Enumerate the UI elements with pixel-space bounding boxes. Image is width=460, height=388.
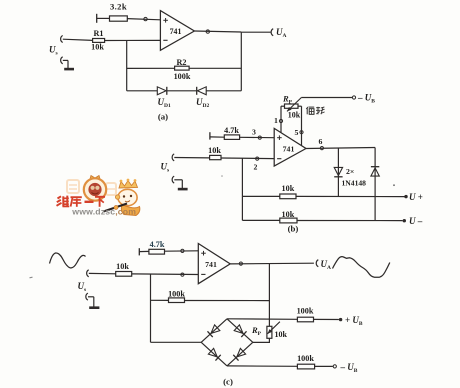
wire to ground (b)	[174, 179, 182, 181]
svg-text:1N4148: 1N4148	[342, 179, 367, 188]
resistor 100k +UB (c)	[297, 317, 313, 322]
wire to ground (a)	[63, 59, 68, 61]
watermark mascot face	[123, 195, 125, 197]
resistor R1	[93, 39, 105, 43]
watermark mascot head	[118, 189, 137, 205]
resistor R2 100k	[175, 66, 190, 70]
resistor 10k U+ (b)	[280, 194, 296, 199]
ground bar (c)	[89, 306, 99, 309]
svg-text:10k: 10k	[91, 43, 104, 52]
bridge edge top-right	[227, 319, 253, 343]
watermark text 维库一下	[58, 196, 62, 198]
wire R2 row	[127, 67, 175, 69]
resistor 4.7k (c)	[149, 249, 165, 254]
watermark mascot pointer stick	[104, 204, 128, 212]
pin 3 node circle	[258, 136, 261, 139]
pin 1 node circle	[279, 119, 282, 122]
svg-text:(b): (b)	[288, 224, 299, 234]
output clipped sine waveform (c)	[333, 257, 390, 278]
node on output (b)	[320, 147, 323, 150]
output wire (a)	[194, 31, 241, 32]
wire to ground (c)	[88, 296, 94, 298]
pot to bridge right corner wire (c)	[253, 338, 270, 342]
scan speck 3	[221, 175, 223, 177]
bridge edge top-left	[201, 319, 227, 343]
resistor 4.7k (b)	[224, 135, 239, 140]
node column left (c)	[150, 274, 152, 342]
output wire (c)	[230, 262, 314, 265]
pin 5 node circle	[300, 131, 303, 134]
wire U- row (b)	[242, 219, 279, 221]
pot wiper arrow (b)	[287, 98, 301, 112]
potentiometer RP 10k (c)	[267, 326, 272, 338]
feedback column right (a)	[240, 32, 242, 91]
op-amp U1 741 (a)	[160, 11, 194, 51]
pin 2 node circle	[256, 157, 259, 160]
potentiometer RP 10k (b)	[285, 104, 299, 108]
wire 4.7k to + input (c)	[139, 250, 149, 252]
input sine waveform (c)	[50, 253, 86, 268]
input terminal Us (b)	[172, 154, 174, 161]
wire 4.7k to pin 3	[210, 136, 224, 138]
resistor 3.2k	[110, 16, 128, 21]
wire U+ row (b)	[242, 195, 279, 197]
diode 1N4148 down (b)	[334, 167, 342, 175]
watermark mascot crown spikes	[119, 181, 138, 189]
resistor 10k input (c)	[116, 272, 132, 277]
scan speck 1	[393, 184, 395, 186]
diode UD2	[197, 87, 206, 95]
svg-text:R1: R1	[93, 29, 103, 38]
ground bar (a)	[64, 68, 74, 71]
bridge edge bottom-right	[227, 342, 253, 366]
svg-text:5: 5	[295, 128, 299, 137]
input terminal Us (a)	[61, 36, 63, 43]
ground bar (b)	[178, 188, 188, 191]
watermark ghost glyph left	[67, 180, 79, 193]
left diode branch wire (b)	[337, 148, 339, 197]
resistor 10k input (b)	[210, 155, 221, 159]
svg-text:10k: 10k	[208, 146, 221, 155]
wire -UB row (c)	[227, 365, 297, 367]
diode 1N4148 up (b)	[371, 168, 379, 176]
bridge edge bottom-left	[201, 342, 227, 366]
node circle + input (c)	[181, 249, 184, 252]
svg-text:2×: 2×	[346, 167, 354, 176]
node circle - input (c)	[181, 273, 184, 276]
op-amp U3 741 (c)	[198, 244, 230, 284]
node on output (c)	[239, 262, 242, 265]
bridge diode D2 top-right	[234, 325, 243, 334]
terminal circle -UB (b)	[352, 96, 355, 99]
terminal circle -UB (c)	[333, 365, 336, 368]
pot RP wiper wire to -UB	[301, 97, 352, 99]
bridge diode D4 bottom-right	[237, 348, 246, 357]
svg-text:3.2k: 3.2k	[110, 2, 127, 12]
resistor 100k feedback (c)	[169, 298, 185, 303]
svg-text:3: 3	[252, 128, 256, 137]
svg-text:R2: R2	[176, 58, 186, 67]
diode UD1	[157, 87, 166, 95]
node column below pin 2 (b)	[241, 158, 243, 220]
ground terminal arc (b)	[172, 176, 174, 183]
watermark ghost glyph right	[106, 183, 116, 195]
svg-text:100k: 100k	[297, 307, 314, 316]
resistor 10k U- (b)	[280, 218, 297, 223]
bridge diode D1 top-left	[211, 325, 220, 334]
svg-text:10k: 10k	[282, 210, 295, 219]
ground terminal arc (c)	[86, 293, 88, 300]
pin 5 wire (b)	[298, 105, 302, 107]
svg-text:100k: 100k	[297, 354, 314, 363]
pot wiper arrow (c)	[268, 322, 280, 334]
svg-text:100k: 100k	[168, 289, 185, 298]
wire 100k feedback row (c)	[151, 299, 169, 301]
svg-text:100k: 100k	[174, 72, 191, 81]
feedback node column left (a)	[126, 41, 128, 91]
svg-text:2: 2	[254, 163, 258, 172]
output node column (c)	[268, 263, 270, 326]
watermark medal mascot crown	[90, 176, 101, 181]
svg-text:4.7k: 4.7k	[224, 126, 239, 135]
svg-text:U +: U +	[409, 192, 423, 202]
wire Us to 10k to pin 2 (b)	[174, 157, 209, 159]
scan speck 2	[30, 276, 33, 279]
svg-text:741: 741	[205, 260, 217, 269]
op-amp U2 741 (b)	[274, 128, 306, 166]
svg-text:www.dzsc,com: www.dzsc,com	[71, 206, 136, 216]
watermark mascot body	[121, 205, 140, 216]
svg-text:10k: 10k	[282, 184, 295, 193]
pin 1 wire (b)	[281, 105, 285, 107]
wire bridge left feed (c)	[151, 341, 202, 343]
output terminal UA (c)	[316, 260, 318, 267]
output wire pin 6 (b)	[306, 148, 375, 149]
resistor 4.7k end-cap bar (c)	[138, 248, 140, 255]
svg-text:741: 741	[170, 27, 182, 36]
wire Us to R1 and to - input	[63, 39, 93, 40]
terminal dot U+	[404, 195, 407, 198]
svg-text:741: 741	[283, 145, 295, 154]
svg-text:1: 1	[274, 116, 278, 125]
input terminal Us (c)	[87, 270, 89, 277]
wire diode row (a)	[127, 90, 158, 92]
resistor 100k -UB (c)	[297, 364, 314, 369]
watermark medal mascot circle	[84, 178, 106, 200]
output terminal UA (a)	[271, 29, 273, 36]
bridge diode D3 bottom-left	[208, 348, 217, 357]
svg-text:(a): (a)	[158, 112, 168, 122]
wire Us to 10k to - input (c)	[89, 272, 116, 274]
svg-text:10k: 10k	[288, 111, 301, 120]
svg-text:10k: 10k	[116, 262, 129, 271]
svg-text:10k: 10k	[275, 330, 288, 339]
circuit (a) resistor 3.2k end-cap bar	[96, 14, 98, 23]
svg-text:4.7k: 4.7k	[150, 240, 165, 249]
label 偏移 (offset)	[306, 108, 308, 115]
terminal dot +UB	[339, 318, 342, 321]
wire +UB row (c)	[227, 318, 297, 321]
resistor 4.7k end-cap bar (b)	[209, 132, 211, 139]
wire 3.2k to op-amp + input	[97, 17, 110, 19]
right diode branch wire (b)	[374, 148, 376, 221]
ground terminal arc (a)	[61, 57, 63, 64]
terminal dot U-	[403, 219, 406, 222]
svg-text:6: 6	[319, 137, 323, 146]
watermark medal monkey	[88, 183, 101, 196]
svg-text:(c): (c)	[223, 377, 233, 387]
svg-text:U –: U –	[409, 216, 423, 226]
node on + input wire	[144, 17, 147, 20]
node on output (a)	[206, 30, 209, 33]
